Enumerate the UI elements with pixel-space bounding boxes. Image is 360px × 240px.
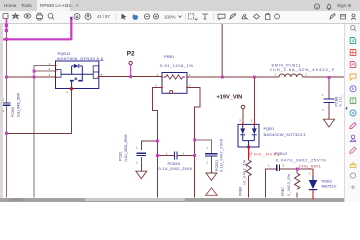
right tools panel (344, 24, 360, 202)
svg-text:+19V_VIN: +19V_VIN (217, 95, 243, 101)
capacitor PCB11 (205, 154, 217, 156)
wire PQB1 testpoint leg (242, 109, 244, 124)
wire PQB12 pin4 to left rail (6, 90, 71, 133)
svg-text:PRB7: PRB7 (281, 187, 285, 196)
svg-text:3: 3 (239, 119, 241, 123)
wire PQB1 cathode down to PRB8 (248, 158, 250, 160)
svg-text:CHG_N001: CHG_N001 (299, 164, 322, 169)
svg-text:2_0603_5%: 2_0603_5% (287, 174, 291, 196)
wire PCB8 branch (328, 77, 330, 119)
red pin stubs (55, 66, 314, 200)
wire PCB1 bottom to ground (140, 157, 142, 171)
capacitor PCB12 (277, 165, 280, 172)
diode PDB2 (309, 180, 318, 189)
inductor PLB11 coil (279, 74, 303, 77)
svg-text:0.047U_0402_25V7K: 0.047U_0402_25V7K (276, 157, 326, 162)
svg-text:1: 1 (268, 163, 270, 167)
off-page arrow up (206, 188, 218, 196)
red pin square PQB1 pin1 (247, 146, 250, 149)
magenta highlighted wire top-left (3, 18, 71, 41)
capacitor PCB5 (3, 103, 10, 105)
svg-text:1: 1 (3, 98, 5, 102)
resistor PRB8 zigzag (246, 160, 251, 178)
svg-text:0.01_1206_1%: 0.01_1206_1% (160, 63, 193, 68)
wire PRB8 bottom (248, 178, 250, 198)
svg-text:1: 1 (206, 146, 208, 150)
svg-text:4: 4 (66, 91, 68, 95)
wire CHG_N001 row (266, 169, 314, 197)
svg-text:3: 3 (49, 73, 51, 77)
svg-text:3: 3 (189, 84, 191, 88)
wire PCB11 branch (195, 140, 212, 153)
capacitor PCB8 (324, 99, 335, 103)
svg-text:PCB5: PCB5 (11, 107, 15, 117)
wire PRB1 pin3 kelvin (187, 88, 200, 198)
svg-text:2: 2 (183, 151, 185, 155)
wire PRB7 bottom (296, 193, 298, 198)
svg-text:0.1U_0402_25V6: 0.1U_0402_25V6 (124, 135, 128, 162)
svg-text:RB751V: RB751V (322, 184, 337, 189)
svg-text:2: 2 (322, 108, 324, 112)
svg-text:PRB8: PRB8 (238, 187, 242, 196)
svg-text:2: 2 (3, 109, 5, 113)
svg-text:1: 1 (275, 73, 277, 77)
svg-text:PQB1: PQB1 (264, 126, 275, 131)
svg-text:2: 2 (206, 160, 208, 164)
svg-text:1UH_2.6A_30%_4X4X2_F: 1UH_2.6A_30%_4X4X2_F (270, 67, 335, 72)
schematic drawing (0, 14, 360, 202)
wire PQB1 anode branch (253, 77, 255, 124)
magenta highlighted net P2 (130, 65, 132, 77)
wire PQB12 pin1 (34, 66, 56, 71)
magenta wire dark cap (70, 17, 72, 20)
ground under PCB8 (323, 119, 334, 127)
svg-text:2: 2 (251, 119, 253, 123)
capacitor PCB1 (137, 153, 147, 155)
svg-text:P2: P2 (127, 51, 135, 58)
testpoint circle at PQB1 (241, 105, 245, 109)
wire PCB11 bottom to ground (210, 157, 212, 174)
red pin square PQB12 pin4 (70, 87, 73, 90)
wire PQB12 pin2 (34, 71, 56, 77)
wire left rail (net to PCB5/PQB12) (5, 19, 7, 197)
svg-text:10_0402_5%: 10_0402_5% (242, 160, 246, 185)
wire PCB10 row (157, 155, 194, 157)
svg-text:PCB1: PCB1 (119, 151, 123, 161)
svg-text:2: 2 (305, 73, 307, 77)
svg-text:1: 1 (322, 93, 324, 97)
svg-text:0.1U_: 0.1U_ (339, 94, 343, 107)
ground under PCB1 (136, 171, 147, 178)
svg-text:2: 2 (155, 84, 157, 88)
svg-text:2: 2 (136, 161, 138, 165)
svg-text:0.1U_0402_25V6: 0.1U_0402_25V6 (17, 93, 21, 117)
PRB1 bottom pin circle (170, 91, 173, 94)
svg-text:0.1U_0402_25V6: 0.1U_0402_25V6 (219, 139, 223, 172)
svg-text:BAS40CW_SOT323 3: BAS40CW_SOT323 3 (264, 132, 307, 137)
wire PRB1 pin2 kelvin (153, 88, 162, 198)
ground under PCB11 (206, 173, 217, 180)
mosfet PQB12 body diode (74, 64, 79, 68)
capacitor PCB10 (174, 152, 177, 160)
wire PCB1 branch (141, 141, 157, 150)
document page (0, 24, 344, 198)
svg-text:0.1U_0402_25V6: 0.1U_0402_25V6 (159, 166, 193, 171)
wire +19V_VIN main horizontal net (6, 76, 343, 78)
svg-text:1: 1 (136, 146, 138, 150)
svg-text:1: 1 (166, 151, 168, 155)
svg-text:2: 2 (283, 163, 285, 167)
testpoint P2 circle (129, 61, 132, 64)
svg-text:CHG_N003: CHG_N003 (250, 151, 281, 156)
acrobat tab bar (0, 0, 360, 11)
dual diode PQB1 body (238, 124, 259, 147)
acrobat toolbar (0, 11, 360, 24)
svg-text:AONT606_DFN33 8 6: AONT606_DFN33 8 6 (57, 56, 104, 61)
mosfet PQB12 body (56, 61, 99, 89)
diode PQB1 internals (240, 124, 256, 146)
wire rail2 down from pins junction (33, 77, 35, 197)
resistor PRB1 internal zigzag (164, 75, 185, 79)
wire top vertical rail (221, 24, 223, 77)
resistor PRB7 zigzag (295, 173, 300, 189)
sense resistor PRB1 body (162, 73, 187, 94)
svg-text:PRB1: PRB1 (164, 54, 175, 59)
svg-text:1: 1 (309, 172, 311, 176)
wire PRB7 top (296, 169, 298, 173)
